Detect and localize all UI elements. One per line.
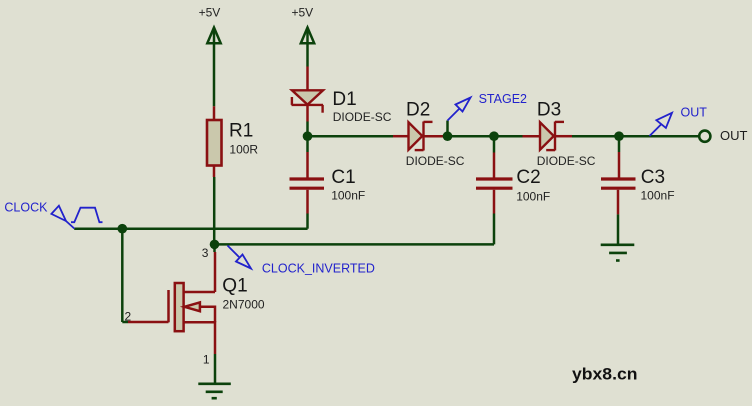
wire D2 to node B bbox=[425, 135, 448, 138]
resistor R1 bbox=[207, 120, 222, 166]
capacitor C2 bbox=[476, 179, 513, 188]
ground under C3 bbox=[601, 245, 635, 261]
node B junction dot bbox=[443, 131, 453, 141]
svg-text:100R: 100R bbox=[229, 142, 258, 156]
svg-text:+5V: +5V bbox=[199, 6, 221, 20]
svg-text:R1: R1 bbox=[229, 121, 253, 142]
wire node D to C3 bbox=[618, 136, 621, 152]
svg-text:STAGE2: STAGE2 bbox=[479, 92, 527, 106]
OUT terminal bbox=[699, 131, 710, 142]
clock pulse waveform glyph bbox=[71, 208, 103, 223]
power +5V symbol 2 bbox=[301, 28, 314, 44]
diode D3 (Schottky, pointing right) bbox=[540, 122, 564, 151]
svg-text:D3: D3 bbox=[537, 99, 561, 120]
svg-text:DIODE-SC: DIODE-SC bbox=[406, 154, 465, 168]
node F junction dot (CLOCK to gate) bbox=[118, 224, 128, 234]
svg-text:CLOCK: CLOCK bbox=[4, 200, 48, 214]
wire C3 bottom to ground bbox=[617, 190, 620, 215]
wire Q1 source to ground bbox=[214, 354, 217, 384]
wire R1 bottom to node (crosses CLOCK wire) bbox=[213, 166, 216, 178]
svg-text:2: 2 bbox=[125, 310, 132, 324]
svg-text:Q1: Q1 bbox=[222, 276, 247, 297]
wire D3 to node D bbox=[556, 135, 572, 138]
svg-text:C1: C1 bbox=[331, 167, 355, 188]
wire node C to D3 bbox=[494, 135, 523, 138]
svg-text:DIODE-SC: DIODE-SC bbox=[333, 110, 392, 124]
wire node E to Q1 drain bbox=[213, 244, 216, 252]
STAGE2 stub wire bbox=[446, 121, 449, 137]
svg-text:+5V: +5V bbox=[292, 6, 314, 20]
svg-text:OUT: OUT bbox=[720, 128, 748, 143]
STAGE2 label arrow bbox=[448, 98, 471, 121]
svg-text:100nF: 100nF bbox=[641, 189, 675, 203]
svg-text:D1: D1 bbox=[332, 89, 356, 110]
CLOCK_INVERTED label arrow bbox=[228, 246, 252, 269]
diode D2 (Schottky, pointing right) bbox=[409, 122, 433, 151]
CLOCK net label arrow bbox=[51, 206, 74, 229]
wire node F down to Q1 gate bbox=[121, 229, 124, 322]
ground under Q1 bbox=[198, 384, 231, 398]
svg-text:DIODE-SC: DIODE-SC bbox=[537, 154, 596, 168]
node D junction dot bbox=[614, 131, 624, 141]
svg-text:C2: C2 bbox=[516, 167, 540, 188]
wire D1 to node A bbox=[306, 105, 309, 122]
svg-text:C3: C3 bbox=[641, 167, 665, 188]
svg-text:CLOCK_INVERTED: CLOCK_INVERTED bbox=[262, 261, 375, 275]
node E junction dot (CLOCK_INVERTED) bbox=[210, 240, 220, 250]
wire node C to C2 bbox=[493, 136, 496, 152]
power +5V symbol 1 bbox=[207, 28, 220, 44]
svg-text:3: 3 bbox=[202, 246, 209, 260]
wire power1 to R1 bbox=[213, 44, 216, 107]
wire node A to C1 bbox=[306, 136, 309, 152]
svg-text:100nF: 100nF bbox=[516, 189, 550, 203]
svg-text:ybx8.cn: ybx8.cn bbox=[572, 366, 638, 384]
wire node B to node C bbox=[448, 135, 495, 138]
capacitor C3 bbox=[601, 179, 636, 188]
svg-text:100nF: 100nF bbox=[331, 189, 365, 203]
wire C1 bottom to CLOCK wire bbox=[306, 190, 309, 214]
svg-text:OUT: OUT bbox=[681, 105, 708, 119]
wire node A to D2 (top rail) bbox=[308, 135, 394, 138]
transistor Q1 (2N7000 NMOS) bbox=[169, 252, 216, 354]
svg-text:2N7000: 2N7000 bbox=[223, 297, 265, 311]
capacitor C1 bbox=[290, 179, 325, 188]
svg-text:1: 1 bbox=[203, 353, 210, 367]
node A junction dot bbox=[303, 131, 313, 141]
node C junction dot bbox=[489, 131, 499, 141]
OUT label arrow bbox=[650, 113, 673, 136]
wire C2 bottom to CLOCK_INVERTED wire bbox=[493, 190, 496, 214]
svg-text:D2: D2 bbox=[406, 99, 430, 120]
wire power2 to D1 bbox=[306, 44, 309, 67]
diode D1 (Schottky, pointing down) bbox=[292, 90, 324, 112]
CLOCK wire bbox=[74, 227, 307, 230]
CLOCK_INVERTED wire bbox=[215, 243, 495, 246]
